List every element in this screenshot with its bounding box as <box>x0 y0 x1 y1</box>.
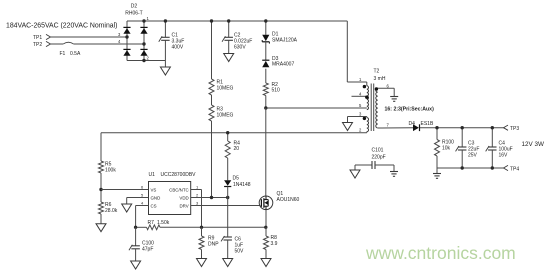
wire DC+ top rail <box>127 20 347 22</box>
node bridge AC2 <box>142 42 145 45</box>
resistor R100 10k <box>436 128 438 140</box>
transformer secondary dot <box>375 87 378 90</box>
transformer T2 primary winding <box>366 82 368 86</box>
svg-text:184VAC-265VAC (220VAC Nominal): 184VAC-265VAC (220VAC Nominal) <box>6 23 117 30</box>
node source R8 CS <box>264 226 267 229</box>
bridge diode lower-right <box>140 48 147 50</box>
ground secondary return <box>436 168 438 174</box>
capacitor C1 3.3uF 400V <box>164 21 166 37</box>
svg-text:1N4148: 1N4148 <box>233 182 251 188</box>
diode D3 MRA4007 <box>265 42 267 60</box>
wire DRV to gate <box>191 205 261 207</box>
resistor R7 1.50k <box>147 225 161 230</box>
wire drain vertical <box>265 108 267 196</box>
svg-text:CBC/NTC: CBC/NTC <box>169 187 189 192</box>
svg-text:1: 1 <box>147 16 150 21</box>
diode D1 SMAJ120A TVS <box>265 21 267 35</box>
svg-text:TP1: TP1 <box>33 35 42 41</box>
transformer pin 3 stub to ground <box>348 116 367 118</box>
node C2 top <box>227 19 230 22</box>
svg-text:D4: D4 <box>409 121 416 127</box>
svg-text:1: 1 <box>359 77 362 82</box>
transformer pin 2 stub <box>366 132 368 133</box>
svg-text:MRA4007: MRA4007 <box>272 61 294 67</box>
capacitor C2 0.022uF 630V <box>228 21 230 37</box>
aux winding wire to VS divider <box>101 132 367 134</box>
transformer pin 6 stub to secondary ground <box>378 87 394 89</box>
svg-text:12V 3W: 12V 3W <box>522 141 544 148</box>
node pin4 tap <box>365 96 368 99</box>
wire top rail to transformer pin 1 <box>346 21 348 82</box>
transformer aux dot <box>363 117 366 120</box>
node C4 top <box>491 126 494 129</box>
transformer pin 7 stub <box>378 127 413 129</box>
node C3 top <box>461 126 464 129</box>
svg-text:2: 2 <box>196 192 199 197</box>
wire switch node to transformer pin 5 <box>266 107 367 109</box>
wire GND pin to ground <box>127 197 149 199</box>
node R100 top <box>435 126 438 129</box>
svg-text:VS: VS <box>151 187 157 192</box>
wire TP1 to bridge <box>51 36 128 38</box>
ground below R8 <box>261 259 271 267</box>
ground C101 primary side <box>354 165 356 170</box>
node C1 top <box>164 19 167 22</box>
fuse F1 0.5A <box>63 42 73 44</box>
wire VS <box>101 189 149 191</box>
svg-text:TP3: TP3 <box>510 126 519 132</box>
resistor R1 10MEG <box>211 21 213 79</box>
svg-text:4: 4 <box>141 200 144 205</box>
svg-text:2: 2 <box>147 56 150 61</box>
resistor R5 100k <box>100 133 102 161</box>
svg-text:U1: U1 <box>149 172 156 178</box>
bridge right column wire <box>143 21 145 61</box>
node CS C100 <box>134 226 137 229</box>
node VDD R3 <box>210 196 213 199</box>
svg-text:4: 4 <box>118 39 121 44</box>
resistor R6 28.0k <box>99 202 104 214</box>
svg-text:CS: CS <box>151 203 157 208</box>
testpoint TP3 <box>504 125 509 130</box>
node R1 top <box>210 19 213 22</box>
testpoint TP4 <box>504 165 509 170</box>
wire VDD <box>191 197 228 199</box>
resistor R9 DNP <box>201 227 203 236</box>
svg-text:SMAJ120A: SMAJ120A <box>272 38 298 44</box>
transformer secondary winding <box>377 87 379 89</box>
transformer core <box>370 84 372 132</box>
wire CS sense line <box>136 226 147 228</box>
svg-text:D2: D2 <box>131 4 138 10</box>
svg-text:T2: T2 <box>374 69 380 75</box>
svg-text:0.5A: 0.5A <box>70 51 81 57</box>
svg-text:10MEG: 10MEG <box>217 113 234 119</box>
ground below C6 <box>223 259 233 267</box>
svg-text:D5: D5 <box>233 175 240 181</box>
node return C4 <box>491 166 494 169</box>
svg-text:F1: F1 <box>60 51 66 57</box>
svg-text:3 mH: 3 mH <box>374 76 386 82</box>
svg-text:47pF: 47pF <box>142 247 153 253</box>
svg-text:GND: GND <box>151 195 161 200</box>
svg-text:220pF: 220pF <box>372 155 386 161</box>
svg-text:R7: R7 <box>148 220 155 226</box>
transformer pin 4 stub <box>352 95 367 97</box>
resistor R3 10MEG <box>211 95 213 105</box>
svg-text:3: 3 <box>118 32 121 37</box>
node bottom rail right column <box>142 59 145 62</box>
svg-text:VDD: VDD <box>179 195 188 200</box>
svg-text:C101: C101 <box>372 148 384 154</box>
svg-text:3.9: 3.9 <box>271 241 278 247</box>
node bridge AC1 <box>125 35 128 38</box>
svg-text:3: 3 <box>359 112 362 117</box>
svg-text:AOU1N60: AOU1N60 <box>277 197 300 203</box>
svg-text:630V: 630V <box>234 45 246 51</box>
secondary ground top right <box>390 96 398 98</box>
svg-text:UCC28700DBV: UCC28700DBV <box>161 172 197 178</box>
resistor R8 3.9 <box>265 227 267 236</box>
capacitor C4 100uF 16V <box>491 128 493 147</box>
svg-text:28.0k: 28.0k <box>105 208 118 214</box>
svg-text:DNP: DNP <box>208 242 219 248</box>
ground below C1 <box>160 67 170 75</box>
svg-text:1: 1 <box>196 184 199 189</box>
ground below R6 <box>96 224 106 232</box>
svg-text:1.50k: 1.50k <box>157 220 170 226</box>
capacitor C101 220pF Y-cap <box>355 164 372 166</box>
svg-text:ES1B: ES1B <box>421 121 434 127</box>
ground below R9 <box>197 259 207 267</box>
node VDD D5 <box>226 196 229 199</box>
svg-text:5: 5 <box>359 103 362 108</box>
bridge left column wire <box>126 21 128 61</box>
resistor R4 20 <box>227 133 229 141</box>
node D1 top <box>264 19 267 22</box>
capacitor C3 22uF 25V <box>461 128 463 147</box>
wire CBC pin to CS line <box>191 189 202 191</box>
op-amp U1 UCC28700DBV box <box>149 182 191 215</box>
node R9 junction <box>200 226 203 229</box>
wire CS pin <box>136 205 149 207</box>
bridge diode upper-right <box>140 26 147 28</box>
svg-text:16: 2:3(Pri:Sec:Aux): 16: 2:3(Pri:Sec:Aux) <box>385 107 435 113</box>
ground below C100 <box>131 261 141 269</box>
svg-text:10k: 10k <box>442 146 451 152</box>
svg-text:RH06-T: RH06-T <box>125 11 143 17</box>
svg-text:20: 20 <box>234 146 240 152</box>
svg-text:DRV: DRV <box>179 203 188 208</box>
wire bottom rail bridge to C1 ground <box>127 60 165 62</box>
svg-text:16V: 16V <box>499 153 509 159</box>
svg-text:510: 510 <box>272 87 281 93</box>
svg-text:7: 7 <box>387 123 390 128</box>
svg-text:TP4: TP4 <box>510 167 519 173</box>
wire secondary return rail <box>437 167 504 169</box>
ground at transformer pin 3 <box>343 123 353 131</box>
svg-text:25V: 25V <box>468 153 478 159</box>
diode D4 ES1B <box>413 124 419 131</box>
svg-text:400V: 400V <box>172 45 184 51</box>
transformer aux winding <box>367 118 369 132</box>
svg-text:2: 2 <box>359 128 362 133</box>
svg-text:100k: 100k <box>105 168 116 174</box>
node R4 aux line <box>226 131 229 134</box>
transformer primary dot <box>363 85 366 88</box>
resistor R2 510 <box>265 69 267 83</box>
svg-text:TP2: TP2 <box>33 42 42 48</box>
ground C101 secondary side <box>393 165 395 172</box>
node switch clamp junction <box>264 106 267 109</box>
svg-text:50V: 50V <box>235 249 245 255</box>
bridge diode upper-left <box>123 26 130 28</box>
transistor Q1 AOU1N60 <box>259 196 273 210</box>
diode D5 1N4148 <box>224 180 231 186</box>
svg-text:10MEG: 10MEG <box>217 86 234 92</box>
node return C3 <box>461 166 464 169</box>
wire source to R8 <box>265 210 267 228</box>
wire secondary output rail <box>420 127 504 129</box>
svg-text:3: 3 <box>196 200 199 205</box>
svg-text:D1: D1 <box>272 31 279 37</box>
svg-text:www.cntronics.com: www.cntronics.com <box>365 243 516 263</box>
ground at U1 GND <box>122 204 132 212</box>
svg-text:6: 6 <box>141 184 144 189</box>
ground below C2 <box>224 54 234 62</box>
bridge diode lower-left <box>123 48 130 50</box>
node top rail right column <box>142 19 145 22</box>
wire TP2 to bridge <box>51 43 64 45</box>
capacitor C6 1uF 50V <box>227 198 229 238</box>
svg-text:4: 4 <box>359 91 362 96</box>
capacitor C100 47pF <box>135 227 137 246</box>
node VS divider <box>99 188 102 191</box>
svg-text:5: 5 <box>141 192 144 197</box>
